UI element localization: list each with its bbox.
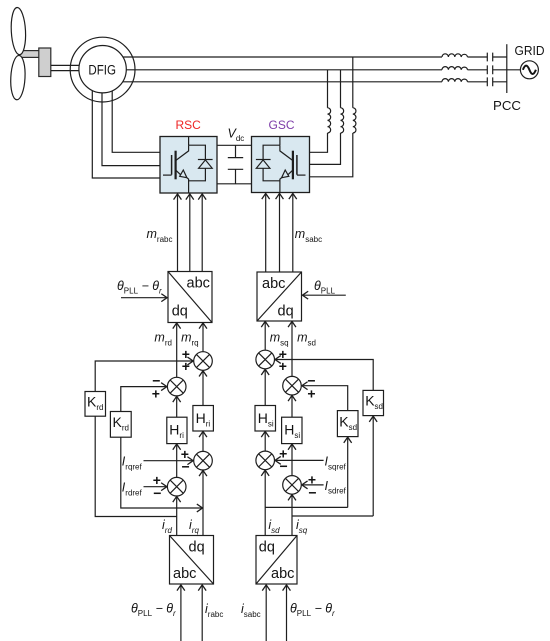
svg-text:msq: msq [270,331,289,348]
svg-text:mrq: mrq [181,331,199,348]
svg-text:+: + [279,358,287,374]
svg-text:Irdref: Irdref [122,481,143,498]
svg-text:dq: dq [189,540,205,556]
svg-text:abc: abc [262,276,285,292]
svg-text:−: − [280,458,288,474]
svg-text:+: + [307,386,315,402]
svg-text:Irqref: Irqref [122,455,143,472]
svg-text:GRID: GRID [515,44,545,58]
svg-text:msd: msd [297,331,316,348]
svg-text:irabc: irabc [205,602,223,619]
svg-text:abc: abc [271,566,294,582]
svg-text:mrd: mrd [154,331,172,348]
svg-text:DFIG: DFIG [88,62,116,77]
svg-text:Vdc: Vdc [228,126,245,143]
svg-text:−: − [153,485,161,501]
svg-text:−: − [308,484,316,500]
svg-text:msabc: msabc [295,227,322,244]
svg-text:isabc: isabc [241,602,261,619]
svg-text:θPLL: θPLL [314,279,336,296]
svg-text:−: − [182,458,190,474]
svg-text:θPLL − θr: θPLL − θr [131,601,176,618]
svg-text:dq: dq [259,540,275,556]
svg-text:RSC: RSC [176,118,202,132]
svg-text:PCC: PCC [493,98,521,113]
svg-text:dq: dq [172,303,188,319]
svg-text:mrabc: mrabc [147,227,173,244]
svg-text:θPLL − θr: θPLL − θr [290,601,335,618]
svg-text:dq: dq [278,303,294,319]
svg-text:isq: isq [296,518,308,535]
svg-text:θPLL − θr: θPLL − θr [117,279,162,296]
svg-text:ird: ird [162,518,172,535]
svg-text:abc: abc [187,276,210,292]
svg-text:Isqref: Isqref [325,455,347,472]
svg-text:abc: abc [173,566,196,582]
svg-text:GSC: GSC [269,118,295,132]
svg-text:+: + [182,358,190,374]
svg-text:isd: isd [268,518,280,535]
svg-text:+: + [152,386,160,402]
svg-text:irq: irq [189,518,199,535]
svg-text:Isdref: Isdref [325,479,347,496]
